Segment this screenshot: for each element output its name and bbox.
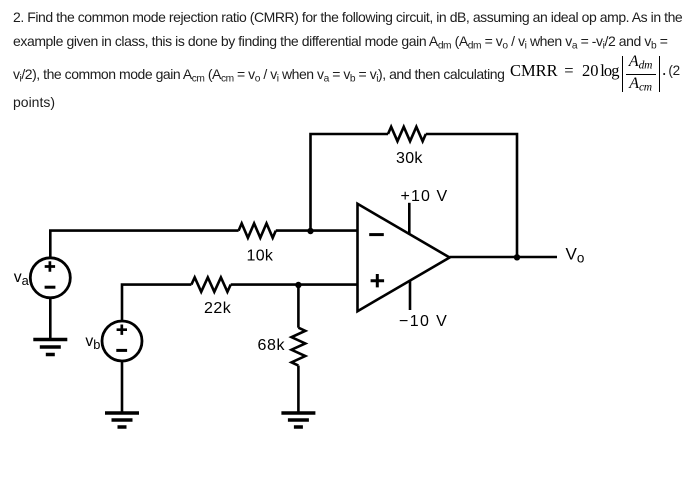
Vb minus sign xyxy=(116,349,127,352)
svg-text:−10 V: −10 V xyxy=(399,313,448,330)
node: non-inverting input junction xyxy=(295,282,301,288)
voltage source Vb xyxy=(102,321,142,361)
wire: +10V supply xyxy=(408,203,411,234)
paragraph line 2 xyxy=(13,34,667,52)
svg-text:10k: 10k xyxy=(247,247,274,264)
wire: feedback left leg up xyxy=(311,134,389,231)
wire: -10V supply xyxy=(409,280,412,310)
op-amp non-inverting input marker xyxy=(371,274,385,287)
ground (68k) xyxy=(281,413,315,427)
wire: 10k to op-amp inverting input xyxy=(276,229,358,232)
paragraph line 1 xyxy=(13,10,682,24)
resistor R2 30k feedback xyxy=(388,127,426,141)
svg-text:+10 V: +10 V xyxy=(401,188,449,205)
node: inverting input junction xyxy=(307,228,313,234)
wire: output xyxy=(450,256,557,259)
ground (vb) xyxy=(105,413,139,427)
wire: 68k to ground xyxy=(297,366,300,413)
paragraph line 3 xyxy=(13,67,504,85)
svg-text:22k: 22k xyxy=(204,300,232,317)
resistor R4 68k xyxy=(292,328,306,366)
Va plus sign xyxy=(45,261,55,271)
svg-text:30k: 30k xyxy=(396,150,423,167)
resistor R3 22k xyxy=(191,277,230,291)
formula fraction Adm/Acm xyxy=(625,54,656,72)
ground (va) xyxy=(33,340,67,355)
op-amp U1 triangle xyxy=(358,204,450,311)
wire: vb source up and right to 22k resistor xyxy=(122,285,191,322)
svg-text:Vo: Vo xyxy=(566,245,585,266)
svg-text:68k: 68k xyxy=(258,337,286,354)
op-amp inverting input marker xyxy=(369,233,384,236)
formula right bar xyxy=(659,56,661,92)
formula tail . (2 xyxy=(662,62,666,79)
resistor R1 10k xyxy=(239,223,276,237)
wire: feedback top right and down to output xyxy=(426,134,517,257)
svg-text:vb: vb xyxy=(85,333,100,352)
wire: va source to ground xyxy=(49,298,52,340)
wire: vb source to ground xyxy=(121,361,124,413)
formula CMRR = 20 log xyxy=(510,63,558,80)
voltage source Va xyxy=(30,258,70,298)
Va minus sign xyxy=(45,286,56,289)
svg-text:va: va xyxy=(14,269,30,288)
wire: va source up and right to 10k resistor xyxy=(50,231,238,258)
formula left bar xyxy=(622,56,624,92)
wire: 22k to op-amp non-inverting input xyxy=(231,283,358,286)
node: output junction xyxy=(514,254,520,260)
Vb plus sign xyxy=(117,325,127,335)
paragraph line 4 xyxy=(13,95,55,109)
wire: node down to 68k xyxy=(297,285,300,328)
